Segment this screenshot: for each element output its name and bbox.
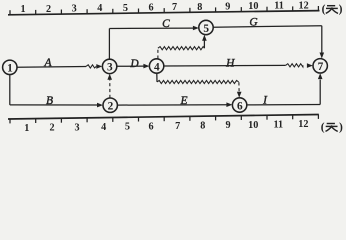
svg-text:2: 2 [108, 101, 114, 113]
top ruler ticks [10, 6, 318, 15]
svg-text:3: 3 [107, 62, 113, 74]
dummy 4 to 6 vertical drop below node 4 [156, 73, 158, 82]
bottom timescale ruler line [8, 115, 319, 120]
svg-text:4: 4 [154, 61, 160, 73]
top timescale ruler line [8, 11, 320, 15]
node 6 [232, 98, 246, 112]
activity B wire horizontal to node 2 [10, 104, 97, 106]
activity H arrowhead into node 7 [307, 63, 313, 68]
bottom ruler unit label (tian = days) [321, 121, 343, 133]
top ruler day numbers 1-12 [20, 0, 308, 15]
svg-text:1: 1 [24, 123, 29, 134]
node 3 [102, 59, 116, 73]
activity G arrowhead into node 7 top [320, 53, 325, 59]
svg-text:3: 3 [75, 122, 80, 133]
activity G wire from node 5 [213, 26, 322, 28]
activity A free-float wavy line [86, 65, 96, 68]
svg-text:10: 10 [248, 120, 258, 131]
activity A wire (1 to 3) solid part [17, 66, 86, 69]
svg-text:E: E [179, 95, 187, 107]
activity B wire vertical drop from node 1 [9, 74, 11, 105]
svg-text:5: 5 [123, 3, 128, 14]
activity A arrowhead into node 3 [96, 64, 102, 69]
bottom ruler ticks [10, 115, 318, 124]
svg-text:(: ( [322, 4, 326, 16]
svg-text:9: 9 [225, 120, 230, 131]
dummy 4 to 5 free-float wavy line [158, 47, 205, 50]
activity H free-float wavy line [286, 64, 303, 67]
top ruler unit label (tian = days) [322, 4, 343, 16]
svg-text:6: 6 [237, 100, 243, 112]
svg-text:1: 1 [20, 4, 25, 15]
svg-text:6: 6 [149, 121, 154, 132]
svg-text:3: 3 [72, 4, 77, 15]
dummy 4 to 5 arrowhead into node 5 bottom [202, 35, 207, 41]
activity C wire horizontal to node 5 [109, 27, 193, 29]
node 2 [103, 98, 117, 112]
svg-text:4: 4 [97, 3, 102, 14]
svg-text:9: 9 [225, 1, 230, 12]
svg-text:5: 5 [125, 122, 130, 133]
svg-text:2: 2 [49, 123, 54, 134]
activity E wire (2 to 6) [118, 104, 227, 106]
svg-text:1: 1 [7, 63, 13, 75]
dummy 4 to 5 vertical rise into node 5 [203, 40, 205, 49]
svg-text:12: 12 [298, 119, 308, 130]
svg-text:8: 8 [197, 2, 202, 13]
svg-text:(: ( [321, 121, 325, 133]
svg-text:7: 7 [318, 61, 324, 73]
svg-text:): ) [339, 121, 343, 133]
svg-text:B: B [46, 95, 53, 107]
activity G wire vertical drop to node 7 [321, 26, 323, 53]
activity C wire vertical rise from node 3 [108, 29, 110, 60]
activity I wire from node 6 [247, 104, 320, 106]
dummy activity arrowhead into node 3 bottom [107, 74, 112, 80]
dummy 4 to 6 arrowhead into node 6 top [237, 92, 242, 98]
activity B arrowhead into node 2 [97, 103, 103, 108]
dummy activity wire 2 to 3 dashed vertical [109, 80, 111, 98]
dummy 4 to 6 free-float wavy line [157, 80, 239, 83]
activity C arrowhead into node 5 [193, 26, 199, 31]
svg-text:5: 5 [203, 23, 209, 35]
svg-text:10: 10 [248, 1, 258, 12]
svg-text:11: 11 [274, 1, 284, 12]
activity D wire (3 to 4) [117, 65, 144, 67]
svg-text:2: 2 [46, 4, 51, 15]
activity H wire (4 to 7) solid part [164, 64, 286, 67]
node 5 [199, 20, 213, 34]
svg-text:8: 8 [200, 121, 205, 132]
dummy 4 to 6 dashed vertical [238, 82, 240, 91]
activity I arrowhead into node 7 bottom [318, 73, 323, 79]
node 1 [3, 60, 17, 74]
svg-text:11: 11 [273, 119, 283, 130]
activity I wire vertical rise to node 7 [319, 80, 321, 105]
activity D arrowhead into node 4 [143, 64, 149, 69]
svg-text:G: G [249, 17, 258, 29]
svg-text:H: H [225, 57, 235, 69]
svg-text:D: D [129, 58, 139, 70]
dummy 4 to 5 dashed vertical above node 4 [157, 48, 159, 58]
activity E arrowhead into node 6 [226, 102, 232, 107]
svg-text:C: C [162, 18, 170, 30]
svg-text:12: 12 [299, 0, 309, 11]
node 4 [149, 59, 163, 73]
svg-text:4: 4 [101, 122, 106, 133]
svg-text:7: 7 [175, 121, 180, 132]
svg-text:): ) [339, 4, 343, 16]
bottom ruler day numbers 1-12 [24, 119, 308, 134]
node 7 [313, 59, 327, 73]
svg-text:6: 6 [148, 3, 153, 14]
svg-text:A: A [43, 57, 52, 69]
svg-text:7: 7 [172, 2, 177, 13]
